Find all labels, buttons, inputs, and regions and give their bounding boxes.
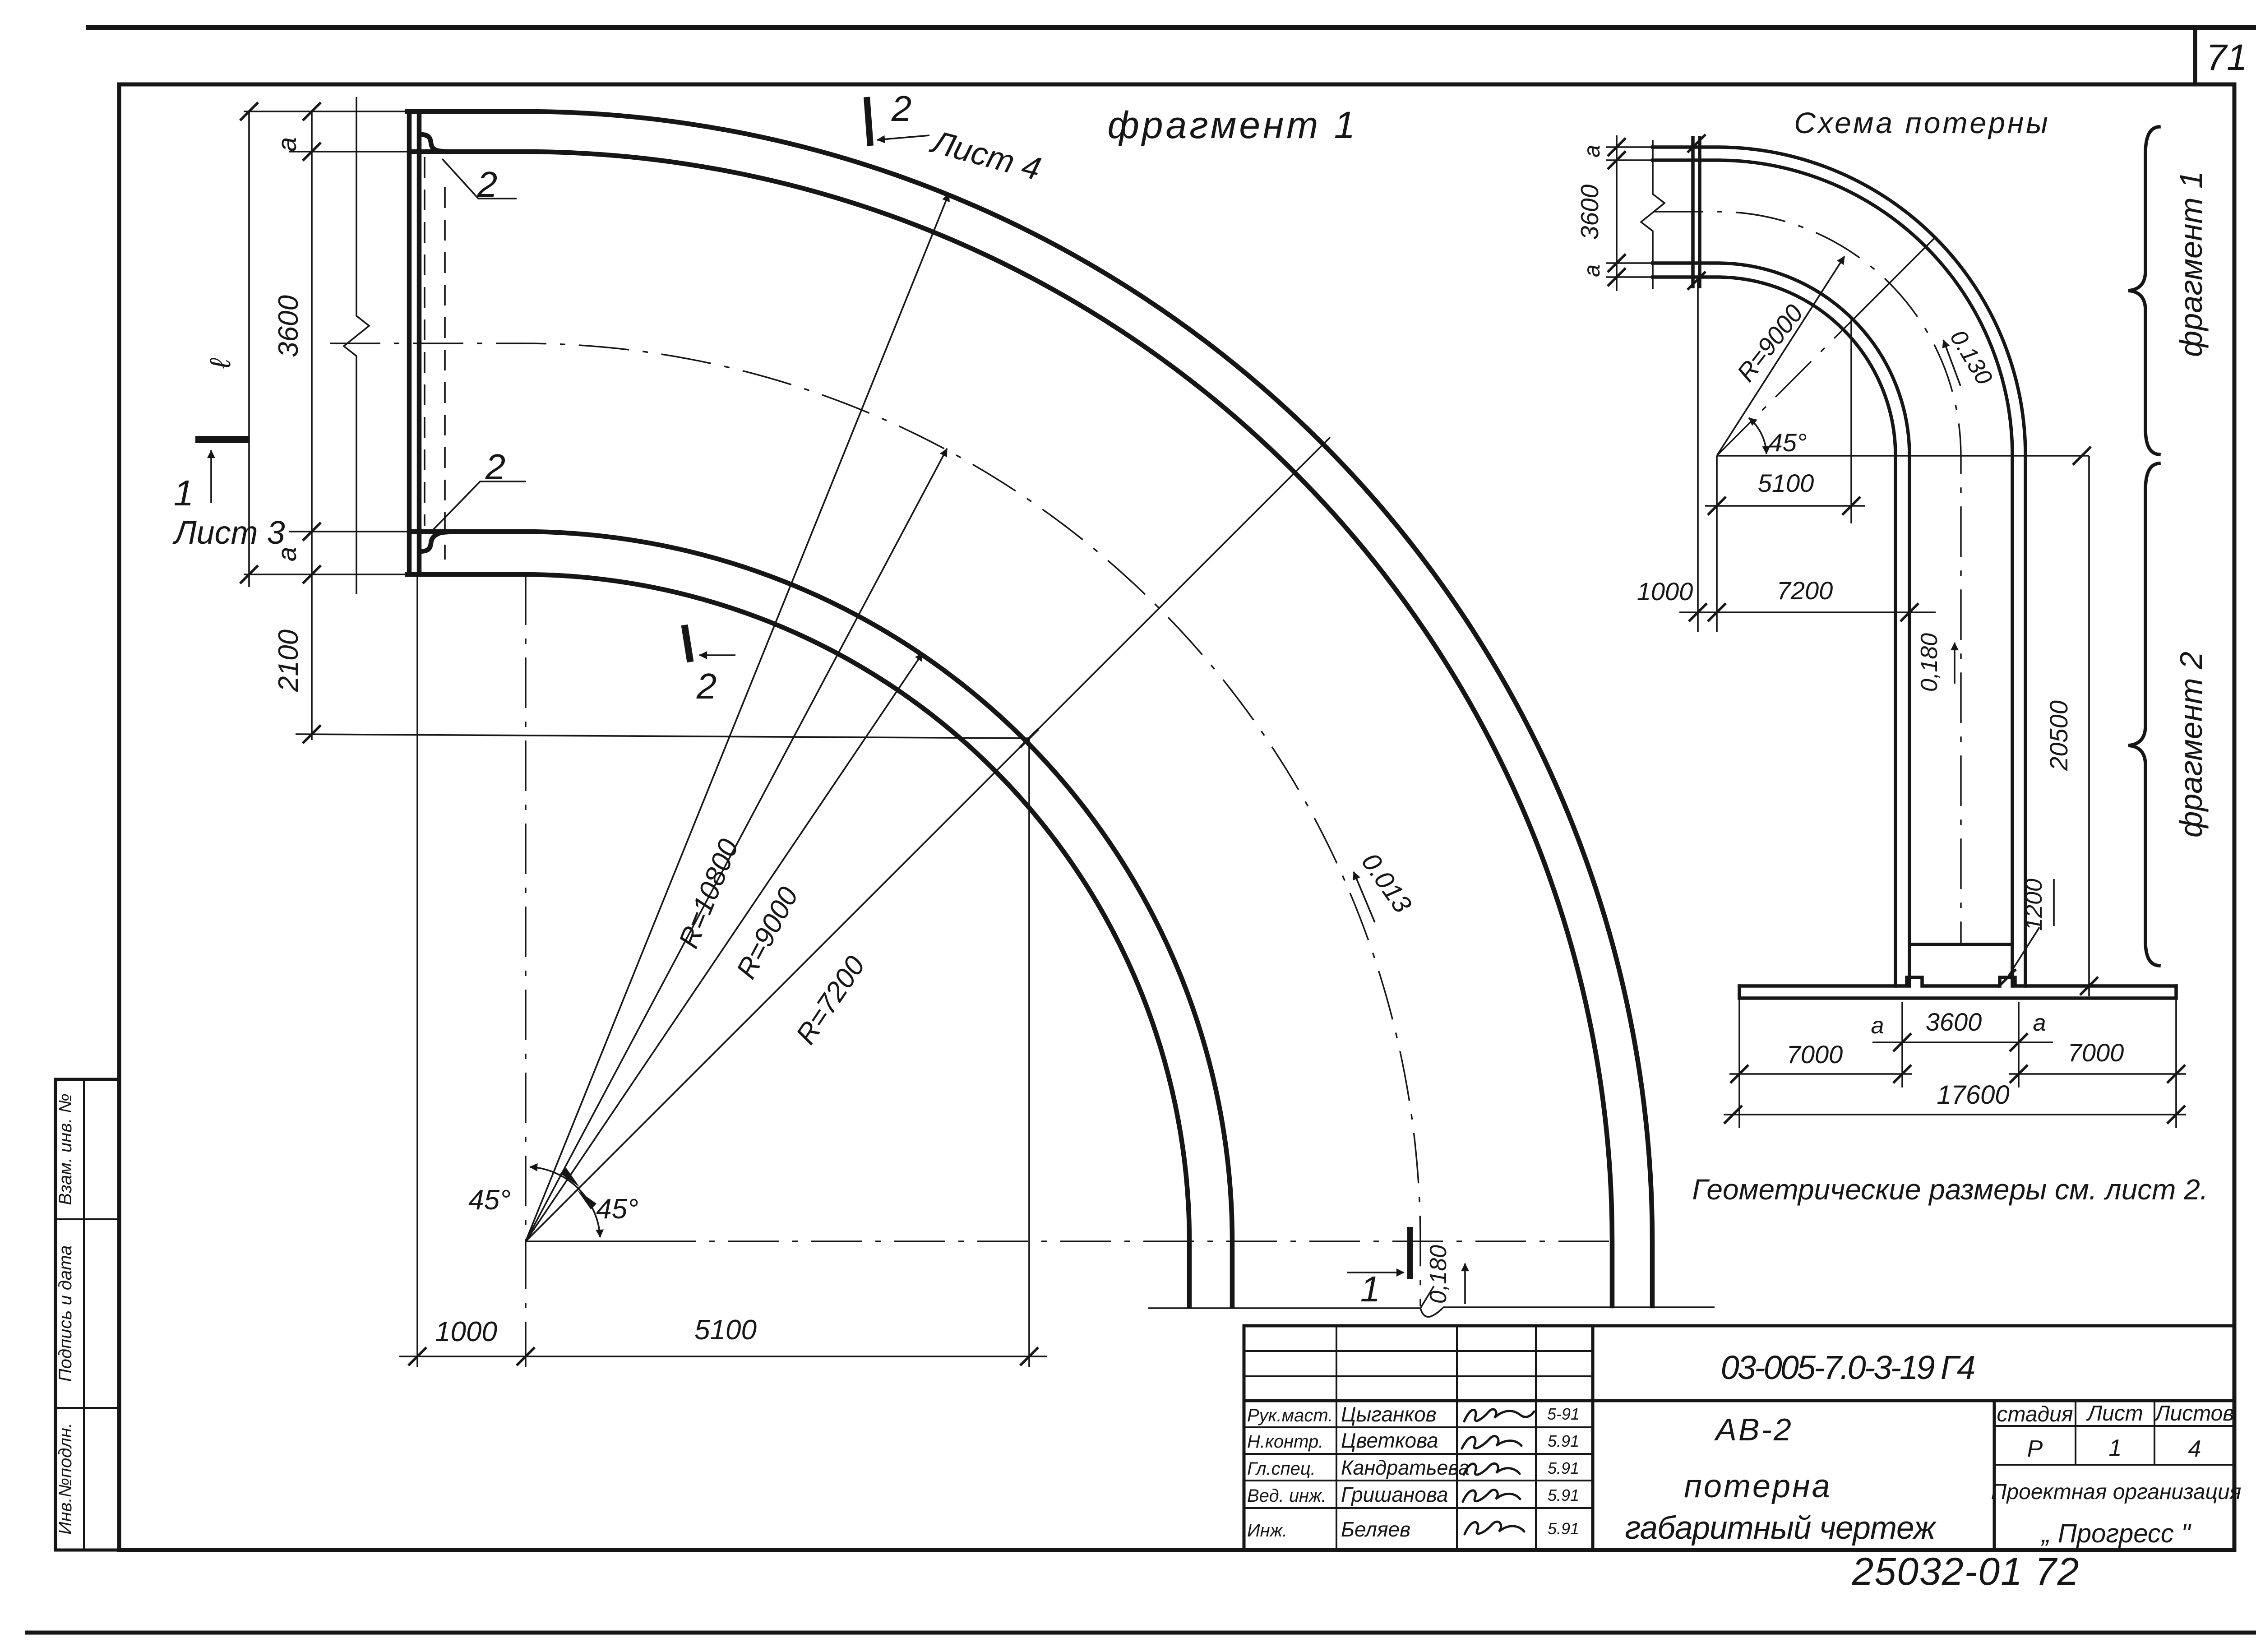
svg-text:1: 1: [2109, 1435, 2122, 1461]
svg-text:Взам. инв. №: Взам. инв. №: [55, 1093, 75, 1205]
svg-text:фрагмент 1: фрагмент 1: [2173, 171, 2209, 357]
svg-text:Инв.№подлн.: Инв.№подлн.: [55, 1423, 75, 1535]
svg-text:3600: 3600: [1576, 184, 1604, 240]
svg-text:фрагмент 2: фрагмент 2: [2173, 652, 2209, 838]
svg-text:0,180: 0,180: [1916, 633, 1942, 692]
svg-text:Вед. инж.: Вед. инж.: [1247, 1486, 1327, 1506]
svg-text:Беляев: Беляев: [1341, 1518, 1410, 1541]
svg-text:Инж.: Инж.: [1247, 1521, 1287, 1541]
svg-text:Рук.маст.: Рук.маст.: [1247, 1406, 1333, 1425]
svg-text:2: 2: [485, 447, 506, 487]
svg-text:стадия: стадия: [1997, 1402, 2073, 1426]
svg-text:Гришанова: Гришанова: [1341, 1483, 1448, 1506]
svg-text:2: 2: [696, 666, 717, 706]
svg-text:45°: 45°: [1769, 428, 1807, 457]
svg-text:1000: 1000: [435, 1316, 497, 1347]
svg-text:5.91: 5.91: [1548, 1486, 1579, 1504]
svg-text:7200: 7200: [1777, 576, 1833, 605]
svg-text:7000: 7000: [1787, 1040, 1843, 1069]
svg-text:Проектная организация: Проектная организация: [1991, 1480, 2242, 1504]
svg-text:17600: 17600: [1937, 1080, 2009, 1110]
svg-text:20500: 20500: [2044, 700, 2073, 771]
svg-text:45°: 45°: [596, 1194, 638, 1225]
svg-text:Р: Р: [2027, 1436, 2043, 1462]
svg-text:5.91: 5.91: [1548, 1519, 1579, 1538]
svg-text:a: a: [273, 137, 302, 152]
svg-text:Лист 3: Лист 3: [172, 515, 285, 551]
svg-text:2: 2: [891, 88, 912, 129]
svg-text:03-005-7.0-3-19 Г4: 03-005-7.0-3-19 Г4: [1721, 1349, 1974, 1386]
svg-text:a: a: [1871, 1013, 1884, 1039]
svg-text:3600: 3600: [1926, 1008, 1982, 1036]
svg-text:71: 71: [2206, 37, 2247, 78]
svg-text:Геометрические размеры см. лис: Геометрические размеры см. лист 2.: [1692, 1173, 2208, 1206]
svg-text:„ Прогресс ": „ Прогресс ": [2040, 1519, 2191, 1548]
svg-text:фрагмент 1: фрагмент 1: [1108, 104, 1358, 146]
svg-text:a: a: [1579, 264, 1604, 277]
svg-text:5.91: 5.91: [1548, 1432, 1579, 1450]
svg-text:Подпись и дата: Подпись и дата: [55, 1245, 75, 1382]
svg-text:1200: 1200: [2021, 879, 2047, 931]
svg-text:4: 4: [2188, 1436, 2201, 1462]
svg-text:потерна: потерна: [1684, 1468, 1831, 1504]
svg-text:a: a: [2033, 1010, 2046, 1036]
svg-text:5.91: 5.91: [1548, 1459, 1579, 1477]
svg-text:Н.контр.: Н.контр.: [1247, 1432, 1323, 1452]
svg-text:Лист: Лист: [2086, 1402, 2143, 1425]
svg-text:Цветкова: Цветкова: [1341, 1429, 1438, 1452]
svg-text:Листов: Листов: [2154, 1402, 2234, 1425]
svg-text:Схема потерны: Схема потерны: [1794, 106, 2050, 139]
svg-text:2100: 2100: [273, 629, 304, 692]
svg-text:Цыганков: Цыганков: [1341, 1402, 1437, 1426]
svg-text:1000: 1000: [1637, 577, 1693, 606]
svg-text:5-91: 5-91: [1547, 1405, 1580, 1423]
svg-text:a: a: [1579, 145, 1604, 157]
svg-text:25032-01 72: 25032-01 72: [1852, 1550, 2080, 1593]
svg-text:0,180: 0,180: [1425, 1245, 1452, 1304]
svg-text:2: 2: [477, 164, 498, 204]
svg-text:5100: 5100: [1758, 469, 1814, 497]
svg-text:7000: 7000: [2068, 1038, 2124, 1067]
svg-text:АВ-2: АВ-2: [1714, 1412, 1793, 1447]
svg-text:Кандратьева: Кандратьева: [1341, 1456, 1470, 1479]
svg-text:45°: 45°: [468, 1185, 511, 1216]
svg-text:5100: 5100: [694, 1314, 757, 1346]
svg-text:1: 1: [174, 473, 194, 513]
svg-text:1: 1: [1360, 1269, 1381, 1309]
svg-text:3600: 3600: [273, 295, 304, 357]
svg-text:Гл.спец.: Гл.спец.: [1247, 1459, 1316, 1479]
svg-text:ℓ: ℓ: [204, 358, 236, 369]
svg-text:габаритный чертеж: габаритный чертеж: [1625, 1510, 1937, 1546]
